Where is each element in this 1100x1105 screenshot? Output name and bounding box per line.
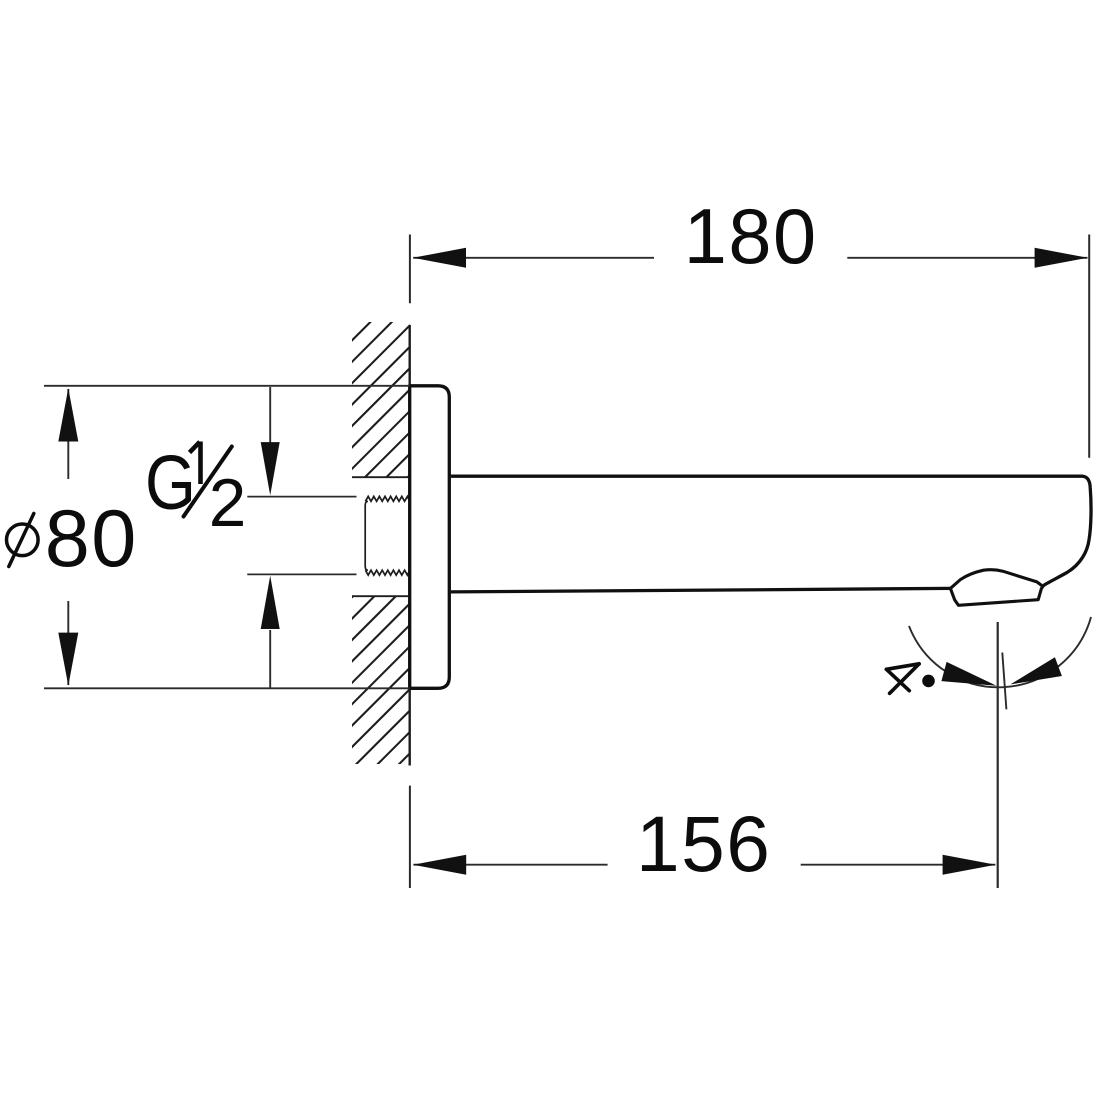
spout bottom edge xyxy=(451,588,951,592)
wall hole top edge xyxy=(352,476,410,478)
spout right end curve xyxy=(1044,476,1091,585)
svg-text:G: G xyxy=(145,440,196,526)
fraction numeral 1 xyxy=(190,442,201,485)
dim 180 line left xyxy=(413,257,654,259)
svg-text:180: 180 xyxy=(684,194,818,280)
dim 80 arrow up xyxy=(58,388,78,441)
angle arrow right xyxy=(1010,657,1062,684)
G1/2 dim line upper xyxy=(269,387,271,446)
wall hatching xyxy=(330,246,425,855)
dim 156 left extension xyxy=(409,786,411,888)
angle arrow left xyxy=(941,662,996,686)
svg-text:80: 80 xyxy=(45,494,138,584)
dim 180 left extension xyxy=(409,235,411,304)
dim 156 arrow right xyxy=(943,855,996,875)
dim 180 arrow left xyxy=(413,248,466,268)
dim 180 arrow right xyxy=(1035,248,1088,268)
wall face xyxy=(409,325,411,766)
dim 80 top extension xyxy=(44,385,410,387)
dim 80 bottom extension xyxy=(44,687,410,689)
dim 80 arrow down xyxy=(58,633,78,686)
fraction slash xyxy=(184,447,232,517)
dim 156 line left xyxy=(413,864,607,866)
dim 80 line lower xyxy=(67,601,69,685)
G1/2 dim line lower xyxy=(269,630,271,688)
dim 156 arrow left xyxy=(413,855,466,875)
svg-text:2: 2 xyxy=(209,466,247,541)
angle arc xyxy=(909,617,1091,687)
G1/2 arrow down xyxy=(261,442,280,495)
pipe thread bottom xyxy=(365,570,409,575)
pipe left edge xyxy=(365,501,368,570)
pipe thread top xyxy=(365,496,409,501)
flange xyxy=(410,386,450,689)
aerator outlet face xyxy=(950,585,1043,605)
aerator bump xyxy=(950,570,1042,589)
label G1/2 xyxy=(145,440,246,541)
dim 80 line upper xyxy=(67,389,69,479)
G1/2 upper pointer line xyxy=(247,496,356,498)
G1/2 lower pointer line xyxy=(247,573,356,575)
svg-text:156: 156 xyxy=(636,800,771,888)
label 4 xyxy=(886,664,919,694)
dim 180 line right xyxy=(847,257,1087,259)
diameter symbol xyxy=(6,524,38,556)
degree dot xyxy=(922,675,935,688)
dim 156 line right xyxy=(801,864,996,866)
angle tilted line xyxy=(1002,653,1006,710)
wall hole bottom edge xyxy=(352,595,410,597)
spout top edge xyxy=(451,475,1083,478)
dim 156 right extension / angle reference xyxy=(997,622,999,888)
G1/2 arrow up xyxy=(261,576,280,629)
dim 180 right extension xyxy=(1088,235,1090,458)
